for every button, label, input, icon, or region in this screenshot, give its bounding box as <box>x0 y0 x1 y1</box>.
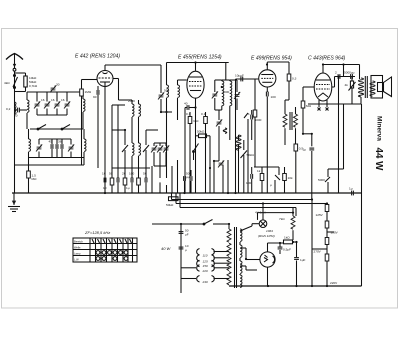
svg-text:30: 30 <box>56 83 60 87</box>
tone network right <box>318 169 344 193</box>
transformer secondaries <box>240 229 242 287</box>
Minerva brand <box>373 116 384 171</box>
grid stopper <box>301 92 312 134</box>
bottom HT bus <box>229 285 362 287</box>
svg-text:36: 36 <box>58 140 62 144</box>
bottom wire output section <box>308 103 362 105</box>
T1 grid leak <box>80 80 92 166</box>
T2 top bus <box>167 62 229 64</box>
speaker coil <box>370 76 383 99</box>
svg-text:90: 90 <box>93 95 97 99</box>
top tuning bus <box>27 91 83 93</box>
svg-text:270V: 270V <box>314 250 322 254</box>
AF bus <box>254 167 279 175</box>
volume pot <box>241 140 255 167</box>
tuning gang row1 <box>34 92 70 115</box>
svg-text:40 W: 40 W <box>161 246 172 251</box>
ground bus <box>12 192 362 194</box>
svg-text:150: 150 <box>203 264 208 268</box>
AF choke pair <box>283 107 298 145</box>
svg-text:40: 40 <box>184 102 188 106</box>
svg-text:44 W: 44 W <box>373 148 384 172</box>
resistor 1k horizontal <box>284 236 297 244</box>
AVC bus <box>112 167 150 169</box>
osc coil right <box>84 129 86 158</box>
svg-text:16: 16 <box>61 98 65 102</box>
IF2 secondary varcap <box>215 110 222 140</box>
decoupling cap 1u <box>303 134 315 200</box>
cap 0.5uF <box>278 243 291 254</box>
svg-text:110: 110 <box>203 254 208 258</box>
IF transformer 2 <box>222 80 232 110</box>
svg-text:1k: 1k <box>102 172 106 176</box>
svg-text:5k: 5k <box>143 172 147 176</box>
grid resistor T4 <box>294 144 303 193</box>
feedback pot <box>345 77 356 105</box>
IF transformer 1 top pair <box>119 79 141 144</box>
pilot lamp <box>240 211 267 232</box>
rectifier label <box>258 229 275 238</box>
svg-text:1064: 1064 <box>266 229 273 233</box>
mixer pot right of IF1 <box>143 130 158 178</box>
svg-text:MΩ: MΩ <box>32 177 38 181</box>
svg-text:240: 240 <box>202 280 208 284</box>
svg-text:0,2: 0,2 <box>6 107 11 111</box>
cap 1u on ground bus <box>349 187 353 196</box>
transformer core <box>235 227 237 288</box>
primary taps voltage selector <box>181 249 229 285</box>
AVC caps row <box>151 143 169 178</box>
resistor 1k bottom <box>257 167 264 193</box>
svg-text:10μμF: 10μμF <box>235 74 244 78</box>
T1 cathode cap <box>93 86 99 168</box>
svg-text:0,5μF: 0,5μF <box>283 248 291 252</box>
svg-text:50: 50 <box>109 172 113 176</box>
AF coupling cap <box>251 110 262 140</box>
right vertical 343 <box>343 104 345 169</box>
svg-text:10: 10 <box>103 186 107 190</box>
voltage divider chain <box>312 204 339 286</box>
output transformer core <box>365 76 367 98</box>
svg-text:1MΩ: 1MΩ <box>85 90 92 94</box>
antenna coupling coil <box>6 102 16 114</box>
rectifier tube <box>240 248 275 286</box>
heater hum resistor <box>279 208 295 240</box>
svg-text:100: 100 <box>271 95 276 99</box>
smoothing caps <box>161 224 189 293</box>
svg-text:E 442 (RENS 1204): E 442 (RENS 1204) <box>75 54 120 60</box>
svg-text:μ: μ <box>270 183 272 187</box>
first IF varcap <box>158 89 169 113</box>
svg-text:4k: 4k <box>345 83 349 87</box>
T3 grid resistor <box>248 79 257 167</box>
svg-text:5000μμ: 5000μμ <box>344 71 355 75</box>
coil row1 right <box>83 92 85 129</box>
heater wire <box>258 204 294 220</box>
T4 heater pins <box>318 100 329 111</box>
wires under T1 <box>112 105 125 178</box>
antenna <box>6 54 23 194</box>
svg-text:10k: 10k <box>288 176 293 180</box>
svg-text:MΩ: MΩ <box>306 104 312 108</box>
svg-text:50: 50 <box>14 114 18 118</box>
svg-text:220V: 220V <box>330 281 338 285</box>
svg-text:(RGN 1054): (RGN 1054) <box>258 234 275 238</box>
svg-text:50kΩ: 50kΩ <box>197 130 205 134</box>
svg-text:μμ: μμ <box>186 175 190 179</box>
osc pot left of IF1 <box>122 130 128 178</box>
switch mid <box>193 144 199 161</box>
svg-text:16: 16 <box>51 98 55 102</box>
svg-text:ZF=128,5 kHz: ZF=128,5 kHz <box>84 230 110 235</box>
svg-text:0,7kΩ: 0,7kΩ <box>29 84 38 88</box>
svg-text:Minerva: Minerva <box>376 116 383 141</box>
row2 links <box>29 157 85 159</box>
tube T2 E455 <box>187 71 204 106</box>
svg-text:1μF: 1μF <box>300 258 306 262</box>
tube T4 C443 <box>314 65 332 102</box>
AC squiggle <box>236 135 241 150</box>
tone pot bottom <box>270 175 280 193</box>
power transformer primary <box>227 224 231 286</box>
svg-text:MΩ: MΩ <box>194 119 200 123</box>
mains wire and switch <box>152 220 229 225</box>
svg-text:125: 125 <box>203 259 208 263</box>
small squiggle IF2 <box>223 128 227 133</box>
T3 top wire <box>267 61 289 63</box>
grid coil T2 <box>178 80 187 120</box>
staircase buses <box>172 193 328 286</box>
svg-text:100: 100 <box>246 181 251 185</box>
svg-text:45: 45 <box>49 140 53 144</box>
svg-text:7kΩ: 7kΩ <box>279 217 285 221</box>
tube T3 E499 <box>259 62 276 92</box>
osc coil left <box>29 129 31 158</box>
svg-text:Lamp: Lamp <box>74 252 81 256</box>
right vertical 338 <box>338 77 340 194</box>
T4 grid wire <box>303 87 314 92</box>
svg-text:0,1: 0,1 <box>186 112 191 116</box>
T2 cathode cap <box>184 102 196 194</box>
svg-text:1μ: 1μ <box>349 187 353 191</box>
coupling cap left <box>14 108 27 118</box>
T3 cathode cap <box>266 92 276 193</box>
detector cap <box>230 74 258 141</box>
bottom component row left <box>102 160 192 193</box>
band switch row <box>30 125 83 130</box>
svg-text:1: 1 <box>248 112 250 116</box>
chassis right rail <box>361 104 363 286</box>
svg-text:Bereich: Bereich <box>74 240 83 244</box>
electrolytic right <box>294 242 305 286</box>
T1 top wire <box>105 64 161 66</box>
svg-text:1μ: 1μ <box>126 186 130 190</box>
svg-text:1k: 1k <box>257 169 261 173</box>
rectifier HT wire <box>268 243 285 252</box>
T2 screen resistor <box>186 112 199 193</box>
trimmer cap top <box>50 83 60 93</box>
svg-text:4kΩ: 4kΩ <box>4 81 10 85</box>
speaker cone <box>378 77 392 97</box>
svg-text:C 443(RES 964): C 443(RES 964) <box>308 56 346 62</box>
tube T1 E442 <box>82 65 119 193</box>
resistor 10k bottom <box>283 167 293 193</box>
50k resistor mid <box>196 130 210 138</box>
frequency table <box>73 238 137 262</box>
mid vertical wires right of T2 <box>210 113 248 193</box>
svg-text:2: 2 <box>335 71 337 75</box>
svg-text:2k: 2k <box>122 172 126 176</box>
svg-text:E 499(RENS 954): E 499(RENS 954) <box>251 56 292 62</box>
output transformer primary <box>358 78 363 104</box>
IF transformer 1 bottom pair <box>132 143 141 178</box>
T4 top wire <box>323 64 360 66</box>
svg-text:E 455(RENS 1254): E 455(RENS 1254) <box>178 55 222 61</box>
svg-text:0,1: 0,1 <box>201 112 206 116</box>
svg-text:1μ: 1μ <box>303 148 307 152</box>
svg-text:2000: 2000 <box>128 99 135 103</box>
svg-text:50kΩ: 50kΩ <box>166 203 174 207</box>
antenna coil <box>27 92 29 129</box>
svg-text:125V: 125V <box>316 213 324 217</box>
svg-text:Welle: Welle <box>74 246 81 250</box>
svg-text:μF: μF <box>185 233 189 237</box>
svg-text:2000: 2000 <box>222 90 229 94</box>
svg-text:220: 220 <box>202 269 208 273</box>
svg-text:100: 100 <box>129 172 134 176</box>
coupling coil mid <box>161 63 172 179</box>
IF2 right varcap <box>230 80 240 110</box>
svg-text:1kΩ: 1kΩ <box>284 236 290 240</box>
output caps row <box>332 71 355 88</box>
svg-text:16: 16 <box>41 98 45 102</box>
svg-text:5000: 5000 <box>255 118 262 122</box>
T3 anode resistor <box>285 74 297 114</box>
50k resistor bottom <box>166 197 178 207</box>
svg-text:0,3: 0,3 <box>292 77 297 81</box>
mixer varcaps row2 <box>36 139 74 158</box>
screen resistor 2 <box>201 112 207 193</box>
junction dots mid <box>209 160 215 169</box>
padding caps <box>49 139 63 158</box>
IF2 varcap <box>212 80 222 110</box>
row1 bottom link <box>37 114 67 116</box>
grid resistor left <box>27 165 37 193</box>
detector load caps <box>246 167 253 193</box>
antenna series resistor block <box>4 73 38 92</box>
svg-text:5000: 5000 <box>318 178 325 182</box>
ground symbol <box>8 193 20 212</box>
svg-text:L.W: L.W <box>74 258 79 262</box>
svg-text:μ: μ <box>185 248 187 252</box>
